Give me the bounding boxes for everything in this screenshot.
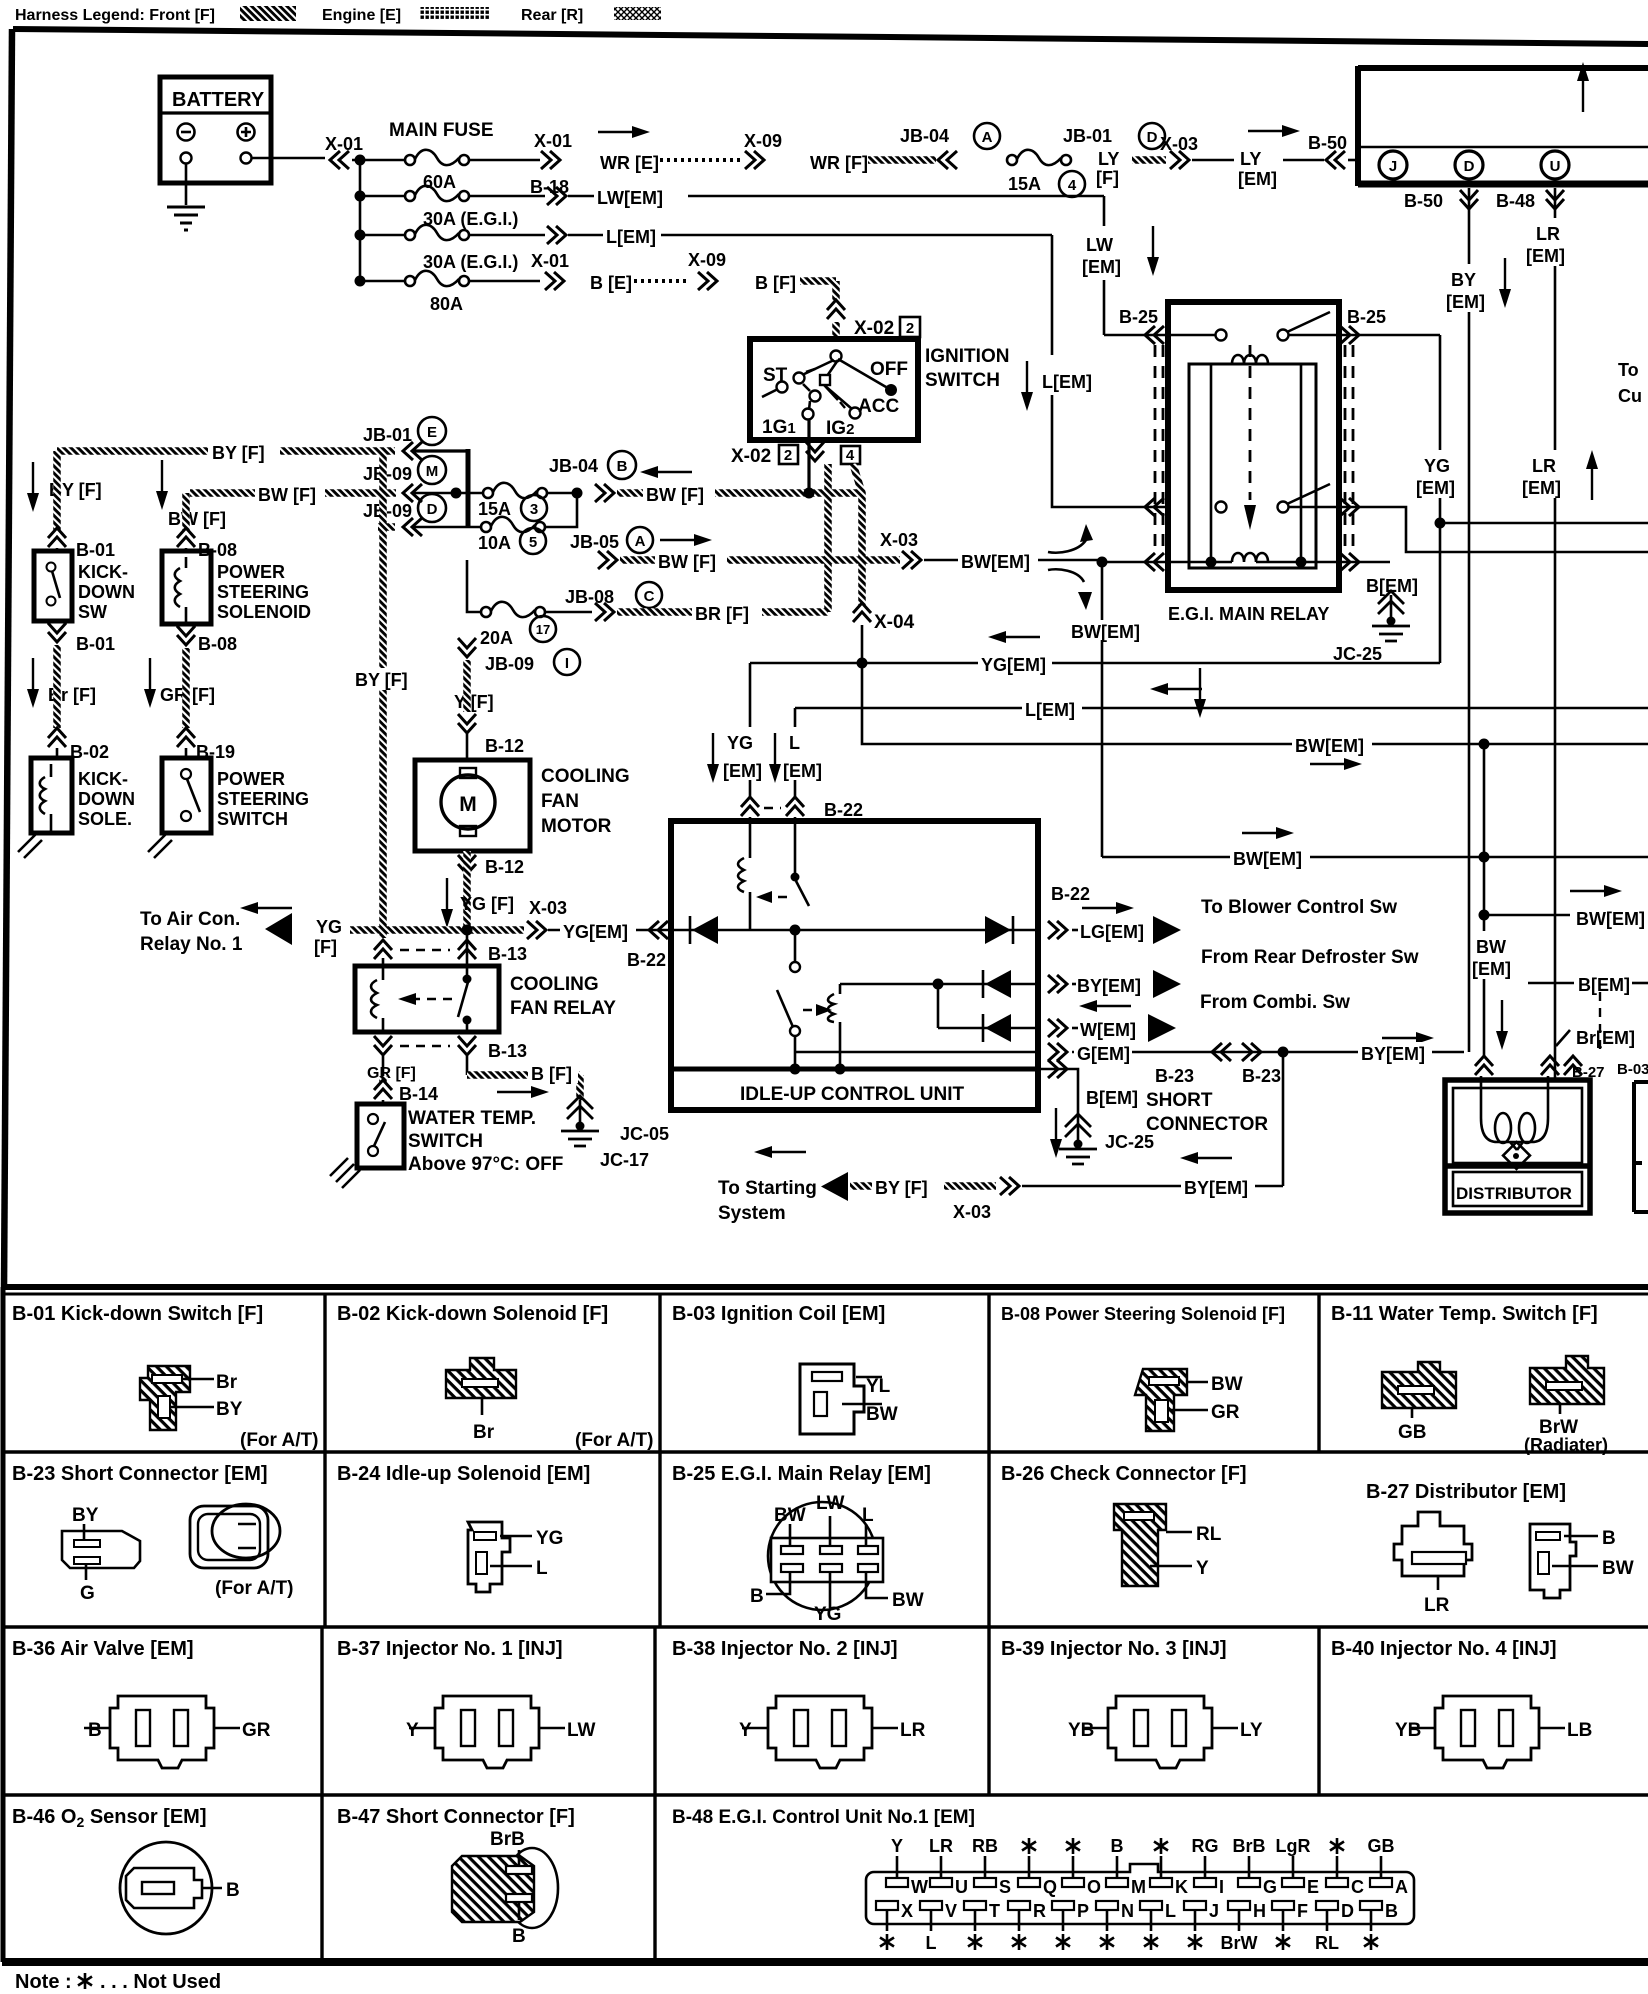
svg-text:B: B bbox=[88, 1720, 102, 1741]
svg-text:X-02: X-02 bbox=[854, 318, 894, 339]
svg-text:B [F]: B [F] bbox=[755, 273, 796, 293]
svg-text:WR [E]: WR [E] bbox=[600, 153, 659, 173]
svg-text:BY [F]: BY [F] bbox=[875, 1178, 928, 1198]
svg-text:B-23: B-23 bbox=[1242, 1066, 1281, 1086]
svg-text:JC-05: JC-05 bbox=[620, 1124, 669, 1144]
svg-text:H: H bbox=[1253, 1901, 1266, 1921]
svg-text:Engine [E]: Engine [E] bbox=[322, 7, 401, 24]
svg-text:Harness Legend: Front [F]: Harness Legend: Front [F] bbox=[15, 7, 215, 24]
svg-text:YB: YB bbox=[1068, 1720, 1094, 1741]
svg-text:BrB: BrB bbox=[490, 1829, 525, 1850]
svg-text:B-25 E.G.I. Main Relay [EM]: B-25 E.G.I. Main Relay [EM] bbox=[672, 1463, 931, 1485]
svg-text:STEERING: STEERING bbox=[217, 789, 309, 809]
svg-text:LR: LR bbox=[1424, 1595, 1450, 1616]
svg-text:B-39 Injector No. 3 [INJ]: B-39 Injector No. 3 [INJ] bbox=[1001, 1638, 1227, 1660]
svg-text:(For A/T): (For A/T) bbox=[575, 1430, 653, 1451]
svg-text:JC-25: JC-25 bbox=[1333, 644, 1382, 664]
svg-text:D: D bbox=[1147, 129, 1158, 146]
svg-text:3: 3 bbox=[530, 501, 538, 518]
svg-text:CONNECTOR: CONNECTOR bbox=[1146, 1114, 1268, 1135]
svg-text:15A: 15A bbox=[1008, 174, 1041, 194]
svg-text:LW: LW bbox=[567, 1720, 596, 1741]
svg-text:30A (E.G.I.): 30A (E.G.I.) bbox=[423, 209, 518, 229]
svg-text:B-01: B-01 bbox=[76, 634, 115, 654]
svg-text:BW[EM]: BW[EM] bbox=[1233, 849, 1302, 869]
svg-text:1G1: 1G1 bbox=[762, 417, 796, 438]
svg-text:X: X bbox=[901, 1901, 913, 1921]
svg-text:80A: 80A bbox=[430, 294, 463, 314]
svg-text:STEERING: STEERING bbox=[217, 582, 309, 602]
svg-text:X-01: X-01 bbox=[531, 251, 569, 271]
svg-text:Br: Br bbox=[216, 1372, 238, 1393]
svg-text:SHORT: SHORT bbox=[1146, 1090, 1213, 1111]
svg-text:LY: LY bbox=[1240, 1720, 1263, 1741]
svg-text:B-50: B-50 bbox=[1404, 191, 1443, 211]
svg-text:[EM]: [EM] bbox=[1416, 478, 1455, 498]
svg-text:JC-25: JC-25 bbox=[1105, 1132, 1154, 1152]
svg-text:B-37 Injector No. 1 [INJ]: B-37 Injector No. 1 [INJ] bbox=[337, 1638, 563, 1660]
svg-text:BW[EM]: BW[EM] bbox=[1071, 622, 1140, 642]
svg-text:BY[EM]: BY[EM] bbox=[1184, 1178, 1248, 1198]
svg-text:LY: LY bbox=[1098, 149, 1119, 169]
svg-text:L[EM]: L[EM] bbox=[606, 227, 656, 247]
svg-text:COOLING: COOLING bbox=[510, 974, 599, 995]
svg-text:LR: LR bbox=[1536, 224, 1560, 244]
svg-text:BW: BW bbox=[866, 1404, 898, 1425]
svg-text:Y: Y bbox=[1196, 1558, 1209, 1579]
svg-text:L: L bbox=[1165, 1901, 1176, 1921]
svg-text:B-22: B-22 bbox=[627, 950, 666, 970]
svg-text:60A: 60A bbox=[423, 172, 456, 192]
svg-text:BW[EM]: BW[EM] bbox=[1295, 736, 1364, 756]
svg-text:Br: Br bbox=[473, 1422, 495, 1443]
svg-text:B-40 Injector No. 4 [INJ]: B-40 Injector No. 4 [INJ] bbox=[1331, 1638, 1557, 1660]
svg-text:20A: 20A bbox=[480, 628, 513, 648]
svg-text:BW: BW bbox=[774, 1505, 806, 1526]
svg-text:[EM]: [EM] bbox=[723, 761, 762, 781]
svg-text:K: K bbox=[1175, 1877, 1188, 1897]
svg-text:YG[EM]: YG[EM] bbox=[981, 655, 1046, 675]
svg-text:(Radiater): (Radiater) bbox=[1524, 1435, 1608, 1455]
svg-text:W: W bbox=[911, 1877, 928, 1897]
svg-text:YL: YL bbox=[866, 1376, 891, 1397]
svg-text:B-27 Distributor [EM]: B-27 Distributor [EM] bbox=[1366, 1481, 1566, 1503]
svg-text:[EM]: [EM] bbox=[783, 761, 822, 781]
svg-text:5: 5 bbox=[529, 534, 537, 551]
svg-text:JB-04: JB-04 bbox=[549, 456, 598, 476]
svg-text:Y: Y bbox=[406, 1720, 419, 1741]
svg-text:BY[EM]: BY[EM] bbox=[1077, 976, 1141, 996]
svg-text:B: B bbox=[1602, 1528, 1616, 1549]
svg-text:[EM]: [EM] bbox=[1238, 169, 1277, 189]
svg-text:B-48: B-48 bbox=[1496, 191, 1535, 211]
svg-text:B-24 Idle-up Solenoid [EM]: B-24 Idle-up Solenoid [EM] bbox=[337, 1463, 590, 1485]
svg-text:POWER: POWER bbox=[217, 562, 285, 582]
svg-text:(For A/T): (For A/T) bbox=[240, 1430, 318, 1451]
svg-text:F: F bbox=[1297, 1901, 1308, 1921]
svg-text:To Blower Control Sw: To Blower Control Sw bbox=[1201, 897, 1397, 918]
svg-text:B-22: B-22 bbox=[824, 800, 863, 820]
svg-text:A: A bbox=[635, 533, 646, 550]
svg-text:X-09: X-09 bbox=[744, 131, 782, 151]
svg-text:LB: LB bbox=[1567, 1720, 1592, 1741]
svg-text:B-02 Kick-down Solenoid [F]: B-02 Kick-down Solenoid [F] bbox=[337, 1303, 608, 1325]
svg-text:JB-05: JB-05 bbox=[570, 532, 619, 552]
svg-text:GB: GB bbox=[1398, 1422, 1427, 1443]
svg-text:B-13: B-13 bbox=[488, 1041, 527, 1061]
svg-text:YB: YB bbox=[1395, 1720, 1421, 1741]
svg-text:BW [F]: BW [F] bbox=[168, 509, 226, 529]
svg-text:L: L bbox=[926, 1933, 937, 1953]
svg-text:L: L bbox=[536, 1558, 548, 1579]
svg-text:X-04: X-04 bbox=[874, 612, 915, 633]
svg-text:B-26 Check Connector [F]: B-26 Check Connector [F] bbox=[1001, 1463, 1247, 1485]
svg-text:YG: YG bbox=[316, 917, 342, 937]
svg-text:B[EM]: B[EM] bbox=[1578, 975, 1630, 995]
svg-text:B-47 Short Connector [F]: B-47 Short Connector [F] bbox=[337, 1806, 575, 1828]
svg-text:SWITCH: SWITCH bbox=[217, 809, 288, 829]
svg-text:MAIN FUSE: MAIN FUSE bbox=[389, 120, 494, 141]
svg-text:30A (E.G.I.): 30A (E.G.I.) bbox=[423, 252, 518, 272]
svg-text:SOLENOID: SOLENOID bbox=[217, 602, 311, 622]
svg-text:17: 17 bbox=[536, 622, 550, 637]
svg-text:YG: YG bbox=[1424, 456, 1450, 476]
svg-text:B-25: B-25 bbox=[1119, 307, 1158, 327]
svg-text:Y: Y bbox=[739, 1720, 752, 1741]
svg-text:JB-01: JB-01 bbox=[363, 425, 412, 445]
svg-text:ST: ST bbox=[763, 365, 788, 386]
svg-text:[F]: [F] bbox=[314, 937, 337, 957]
svg-text:FAN RELAY: FAN RELAY bbox=[510, 998, 616, 1019]
svg-text:MOTOR: MOTOR bbox=[541, 816, 612, 837]
svg-text:B-50: B-50 bbox=[1308, 133, 1347, 153]
svg-text:B [E]: B [E] bbox=[590, 273, 632, 293]
svg-text:E.G.I. MAIN RELAY: E.G.I. MAIN RELAY bbox=[1168, 604, 1329, 624]
svg-text:Cu: Cu bbox=[1618, 386, 1642, 406]
svg-text:COOLING: COOLING bbox=[541, 766, 630, 787]
svg-text:L[EM]: L[EM] bbox=[1025, 700, 1075, 720]
svg-text:GB: GB bbox=[1368, 1836, 1395, 1856]
svg-text:YG [F]: YG [F] bbox=[460, 894, 514, 914]
svg-text:To: To bbox=[1618, 360, 1639, 380]
svg-text:RG: RG bbox=[1192, 1836, 1219, 1856]
svg-text:B: B bbox=[512, 1926, 526, 1947]
svg-text:I: I bbox=[565, 655, 569, 672]
svg-text:B-12: B-12 bbox=[485, 736, 524, 756]
svg-text:X-03: X-03 bbox=[529, 898, 567, 918]
svg-text:JB-09: JB-09 bbox=[363, 464, 412, 484]
svg-text:[EM]: [EM] bbox=[1082, 257, 1121, 277]
svg-text:B-12: B-12 bbox=[485, 857, 524, 877]
svg-text:OFF: OFF bbox=[870, 359, 908, 380]
svg-text:L[EM]: L[EM] bbox=[1042, 372, 1092, 392]
svg-text:B [F]: B [F] bbox=[531, 1064, 572, 1084]
svg-text:. . . Not Used: . . . Not Used bbox=[100, 1971, 221, 1993]
svg-text:N: N bbox=[1121, 1901, 1134, 1921]
svg-text:BR [F]: BR [F] bbox=[695, 604, 749, 624]
svg-text:LY: LY bbox=[1240, 149, 1261, 169]
svg-text:D: D bbox=[427, 501, 438, 518]
svg-text:B-03: B-03 bbox=[1617, 1061, 1648, 1078]
svg-text:Above 97°C: OFF: Above 97°C: OFF bbox=[408, 1154, 563, 1175]
svg-text:SWITCH: SWITCH bbox=[408, 1131, 483, 1152]
svg-text:SOLE.: SOLE. bbox=[78, 809, 132, 829]
svg-text:BY: BY bbox=[216, 1399, 243, 1420]
svg-text:LW: LW bbox=[816, 1493, 845, 1514]
svg-text:Rear [R]: Rear [R] bbox=[521, 7, 583, 24]
svg-text:G[EM]: G[EM] bbox=[1077, 1044, 1130, 1064]
svg-text:B: B bbox=[226, 1880, 240, 1901]
svg-text:JB-04: JB-04 bbox=[900, 126, 949, 146]
svg-text:WR [F]: WR [F] bbox=[810, 153, 868, 173]
svg-text:D: D bbox=[1341, 1901, 1354, 1921]
svg-text:LR: LR bbox=[929, 1836, 953, 1856]
svg-text:DOWN: DOWN bbox=[78, 582, 135, 602]
svg-text:B-46 O2 Sensor [EM]: B-46 O2 Sensor [EM] bbox=[12, 1806, 207, 1830]
svg-text:BY [F]: BY [F] bbox=[212, 443, 265, 463]
svg-text:C: C bbox=[644, 588, 655, 605]
svg-text:E: E bbox=[427, 424, 437, 441]
svg-text:D: D bbox=[1464, 158, 1475, 175]
svg-text:ACC: ACC bbox=[858, 396, 899, 417]
svg-text:T: T bbox=[989, 1901, 1000, 1921]
svg-text:DOWN: DOWN bbox=[78, 789, 135, 809]
svg-text:GR: GR bbox=[242, 1720, 271, 1741]
svg-text:KICK-: KICK- bbox=[78, 562, 128, 582]
svg-text:B-08 Power Steering Solenoid [: B-08 Power Steering Solenoid [F] bbox=[1001, 1304, 1285, 1324]
svg-text:JB-09: JB-09 bbox=[485, 654, 534, 674]
svg-text:C: C bbox=[1351, 1877, 1364, 1897]
svg-text:Q: Q bbox=[1043, 1877, 1057, 1897]
svg-text:YG[EM]: YG[EM] bbox=[563, 922, 628, 942]
svg-text:B-38 Injector No. 2 [INJ]: B-38 Injector No. 2 [INJ] bbox=[672, 1638, 898, 1660]
svg-text:X-09: X-09 bbox=[688, 250, 726, 270]
svg-text:YG: YG bbox=[727, 733, 753, 753]
svg-text:LR: LR bbox=[900, 1720, 926, 1741]
svg-text:LG[EM]: LG[EM] bbox=[1080, 922, 1144, 942]
svg-text:To Starting: To Starting bbox=[718, 1178, 817, 1199]
svg-text:KICK-: KICK- bbox=[78, 769, 128, 789]
svg-text:B-25: B-25 bbox=[1347, 307, 1386, 327]
svg-text:Relay No. 1: Relay No. 1 bbox=[140, 934, 243, 955]
svg-text:V: V bbox=[945, 1901, 957, 1921]
svg-text:2: 2 bbox=[906, 320, 914, 337]
svg-text:BY: BY bbox=[72, 1505, 99, 1526]
svg-text:LW[EM]: LW[EM] bbox=[597, 188, 663, 208]
svg-text:B: B bbox=[1385, 1901, 1398, 1921]
svg-text:M: M bbox=[459, 793, 477, 816]
svg-text:BW[EM]: BW[EM] bbox=[961, 552, 1030, 572]
svg-text:B-11 Water Temp. Switch [F]: B-11 Water Temp. Switch [F] bbox=[1331, 1303, 1598, 1325]
svg-text:JB-01: JB-01 bbox=[1063, 126, 1112, 146]
svg-text:B[EM]: B[EM] bbox=[1086, 1088, 1138, 1108]
svg-text:L: L bbox=[862, 1505, 874, 1526]
svg-text:Note :: Note : bbox=[15, 1971, 72, 1993]
svg-text:BY: BY bbox=[1451, 270, 1476, 290]
svg-text:GR: GR bbox=[1211, 1402, 1240, 1423]
svg-text:BW [F]: BW [F] bbox=[646, 485, 704, 505]
svg-text:BW[EM]: BW[EM] bbox=[1576, 909, 1645, 929]
svg-text:B: B bbox=[750, 1586, 764, 1607]
svg-text:J: J bbox=[1209, 1901, 1219, 1921]
svg-text:B-23 Short Connector [EM]: B-23 Short Connector [EM] bbox=[12, 1463, 268, 1485]
svg-text:B-48 E.G.I. Control Unit No.1: B-48 E.G.I. Control Unit No.1 [EM] bbox=[672, 1807, 975, 1828]
svg-text:X-01: X-01 bbox=[325, 134, 363, 154]
svg-text:YG: YG bbox=[536, 1528, 563, 1549]
svg-text:To Air Con.: To Air Con. bbox=[140, 909, 240, 930]
svg-text:A: A bbox=[982, 129, 993, 146]
svg-text:RL: RL bbox=[1315, 1933, 1339, 1953]
svg-text:LgR: LgR bbox=[1276, 1836, 1311, 1856]
svg-text:R: R bbox=[1033, 1901, 1046, 1921]
svg-text:[EM]: [EM] bbox=[1472, 959, 1511, 979]
svg-text:From Rear Defroster Sw: From Rear Defroster Sw bbox=[1201, 947, 1419, 968]
svg-text:10A: 10A bbox=[478, 533, 511, 553]
svg-text:U: U bbox=[955, 1877, 968, 1897]
svg-text:B-13: B-13 bbox=[488, 944, 527, 964]
svg-text:BrW: BrW bbox=[1221, 1933, 1258, 1953]
svg-text:DISTRIBUTOR: DISTRIBUTOR bbox=[1456, 1184, 1572, 1203]
svg-text:LW: LW bbox=[1086, 235, 1113, 255]
svg-text:S: S bbox=[999, 1877, 1011, 1897]
svg-text:B: B bbox=[617, 458, 628, 475]
svg-text:A: A bbox=[1395, 1877, 1408, 1897]
svg-text:BATTERY: BATTERY bbox=[172, 89, 265, 111]
svg-text:X-01: X-01 bbox=[534, 131, 572, 151]
svg-text:4: 4 bbox=[846, 447, 855, 464]
svg-text:BW: BW bbox=[1211, 1374, 1243, 1395]
svg-text:YG: YG bbox=[814, 1604, 841, 1625]
svg-text:I: I bbox=[1219, 1877, 1224, 1897]
svg-text:BW: BW bbox=[1476, 937, 1506, 957]
svg-text:M: M bbox=[426, 463, 439, 480]
svg-text:POWER: POWER bbox=[217, 769, 285, 789]
svg-text:SW: SW bbox=[78, 602, 107, 622]
svg-text:B-03 Ignition Coil [EM]: B-03 Ignition Coil [EM] bbox=[672, 1303, 885, 1325]
svg-text:WATER TEMP.: WATER TEMP. bbox=[408, 1108, 536, 1129]
svg-text:B-01 Kick-down Switch [F]: B-01 Kick-down Switch [F] bbox=[12, 1303, 263, 1325]
svg-text:SWITCH: SWITCH bbox=[925, 370, 1000, 391]
svg-text:B-14: B-14 bbox=[399, 1084, 438, 1104]
svg-text:B-23: B-23 bbox=[1155, 1066, 1194, 1086]
svg-text:[EM]: [EM] bbox=[1446, 292, 1485, 312]
svg-text:JC-17: JC-17 bbox=[600, 1150, 649, 1170]
svg-text:GR [F]: GR [F] bbox=[367, 1065, 416, 1082]
svg-text:BY[EM]: BY[EM] bbox=[1361, 1044, 1425, 1064]
svg-text:W[EM]: W[EM] bbox=[1080, 1020, 1136, 1040]
svg-text:BW: BW bbox=[1602, 1558, 1634, 1579]
svg-text:2: 2 bbox=[784, 447, 792, 464]
svg-text:M: M bbox=[1131, 1877, 1146, 1897]
svg-text:(For A/T): (For A/T) bbox=[215, 1578, 293, 1599]
svg-text:BY [F]: BY [F] bbox=[355, 670, 408, 690]
svg-text:BW [F]: BW [F] bbox=[258, 485, 316, 505]
svg-text:U: U bbox=[1550, 158, 1561, 175]
svg-text:BrB: BrB bbox=[1232, 1836, 1265, 1856]
svg-text:L: L bbox=[789, 733, 800, 753]
svg-text:X-03: X-03 bbox=[880, 530, 918, 550]
svg-text:IG2: IG2 bbox=[826, 418, 854, 439]
svg-text:P: P bbox=[1077, 1901, 1089, 1921]
svg-text:J: J bbox=[1389, 158, 1397, 175]
svg-text:IGNITION: IGNITION bbox=[925, 346, 1009, 367]
svg-text:BW [F]: BW [F] bbox=[658, 552, 716, 572]
svg-text:B: B bbox=[1111, 1836, 1124, 1856]
svg-text:Br[EM]: Br[EM] bbox=[1576, 1028, 1635, 1048]
svg-text:B-01: B-01 bbox=[76, 540, 115, 560]
svg-text:[EM]: [EM] bbox=[1526, 246, 1565, 266]
svg-text:Y: Y bbox=[891, 1836, 903, 1856]
svg-text:IDLE-UP CONTROL UNIT: IDLE-UP CONTROL UNIT bbox=[740, 1084, 965, 1105]
svg-text:O: O bbox=[1087, 1877, 1101, 1897]
svg-text:FAN: FAN bbox=[541, 791, 579, 812]
svg-text:B-08: B-08 bbox=[198, 634, 237, 654]
svg-text:G: G bbox=[80, 1583, 95, 1604]
svg-text:B-02: B-02 bbox=[70, 742, 109, 762]
svg-text:System: System bbox=[718, 1203, 786, 1224]
svg-text:[EM]: [EM] bbox=[1522, 478, 1561, 498]
svg-text:[F]: [F] bbox=[1096, 168, 1119, 188]
svg-text:15A: 15A bbox=[478, 499, 511, 519]
svg-text:Y [F]: Y [F] bbox=[454, 692, 494, 712]
svg-text:X-03: X-03 bbox=[953, 1202, 991, 1222]
svg-text:B-22: B-22 bbox=[1051, 884, 1090, 904]
svg-text:RL: RL bbox=[1196, 1524, 1222, 1545]
svg-text:B-36 Air Valve [EM]: B-36 Air Valve [EM] bbox=[12, 1638, 194, 1660]
svg-text:E: E bbox=[1307, 1877, 1319, 1897]
svg-text:X-02: X-02 bbox=[731, 446, 771, 467]
svg-text:4: 4 bbox=[1068, 177, 1077, 194]
svg-text:G: G bbox=[1263, 1877, 1277, 1897]
svg-text:From Combi. Sw: From Combi. Sw bbox=[1200, 992, 1350, 1013]
svg-text:JB-09: JB-09 bbox=[363, 501, 412, 521]
svg-text:LR: LR bbox=[1532, 456, 1556, 476]
svg-text:RB: RB bbox=[972, 1836, 998, 1856]
svg-text:BW: BW bbox=[892, 1590, 924, 1611]
